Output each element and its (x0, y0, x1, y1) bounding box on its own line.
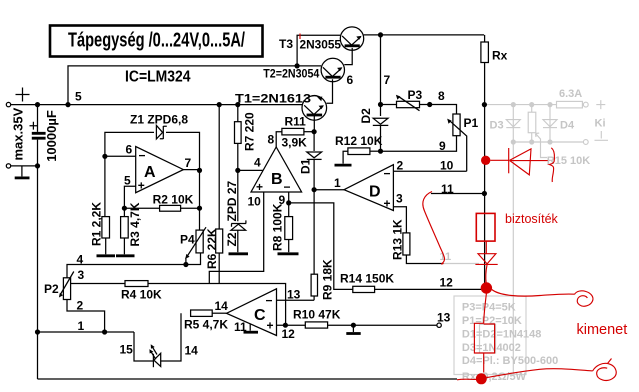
svg-text:R13 1K: R13 1K (390, 219, 404, 260)
svg-text:kimenet: kimenet (577, 322, 628, 338)
red wire to kimenet top loop (492, 290, 575, 297)
svg-text:13: 13 (287, 288, 301, 302)
resistor R11 3,9K (282, 128, 304, 135)
main supply bus 5 (38, 104, 303, 106)
resistor R3 4,7K (123, 208, 125, 216)
svg-text:+: + (384, 197, 391, 211)
svg-text:ZPD 27: ZPD 27 (225, 180, 239, 221)
resistor R13 1K (403, 233, 410, 255)
svg-text:11: 11 (441, 182, 454, 196)
svg-text:T2=2N3054: T2=2N3054 (263, 67, 319, 81)
zener Z1 ZPD6,8 feedback (105, 132, 200, 170)
svg-text:8: 8 (438, 89, 445, 103)
svg-text:15: 15 (120, 343, 134, 357)
red node dot on bottom rail (476, 373, 487, 384)
ghost node dots top (511, 102, 516, 107)
svg-text:R12 10K: R12 10K (335, 134, 383, 148)
svg-text:P3: P3 (408, 88, 423, 102)
ghost diode D4 (549, 105, 551, 142)
pin 7 output (183, 169, 199, 171)
wire 3 with R4 10K (71, 283, 125, 285)
svg-text:11: 11 (440, 251, 452, 263)
svg-text:D: D (369, 184, 381, 201)
svg-text:+: + (267, 319, 274, 333)
svg-text:Z1 ZPD6,8: Z1 ZPD6,8 (130, 113, 188, 127)
svg-text:1: 1 (78, 319, 85, 333)
wire 9 from D2 node to P1 bottom (381, 136, 457, 152)
svg-text:R8 100K: R8 100K (270, 203, 284, 251)
svg-text:D1: D1 (298, 158, 312, 174)
svg-text:max.35V: max.35V (11, 107, 26, 160)
svg-text:Ki: Ki (595, 118, 606, 130)
red curly bracket (549, 148, 554, 182)
svg-text:R10 47K: R10 47K (293, 308, 341, 322)
left rail down (37, 166, 39, 379)
node 7 rail (378, 32, 383, 37)
red output node dot (481, 156, 490, 165)
op-amp D (344, 165, 393, 211)
P2 bottom to wire 1 (67, 300, 105, 333)
resistor R9 18K (313, 190, 315, 275)
red wire bottom to kimenet lower loop (457, 369, 593, 380)
diode D2 (380, 105, 382, 117)
svg-text:R6 22K: R6 22K (205, 228, 219, 269)
svg-text:Rx: Rx (492, 49, 508, 63)
wire input to bus (11, 104, 38, 106)
red hand-drawn diode at output (490, 159, 509, 161)
resistor R14 150K (353, 286, 375, 292)
svg-text:P1: P1 (464, 116, 479, 130)
svg-text:6: 6 (126, 143, 133, 157)
pot P1 (430, 105, 457, 115)
red tick at T3 (299, 34, 301, 40)
svg-text:R4 10K: R4 10K (121, 288, 162, 302)
svg-text:Z2: Z2 (225, 232, 239, 246)
resistor R1 2,2K (104, 156, 106, 216)
ghost ground terminal label (595, 131, 609, 140)
ghost long vertical wire (512, 142, 514, 374)
svg-text:R1 2,2K: R1 2,2K (90, 202, 104, 246)
pin 1 wire (314, 189, 344, 191)
node (35, 102, 40, 107)
svg-text:12: 12 (440, 276, 454, 290)
red diode below fuse (485, 241, 487, 254)
svg-text:P3=P4=5K: P3=P4=5K (462, 302, 516, 314)
transistor T1 2N1613 (302, 96, 327, 121)
input terminal - (6, 164, 10, 168)
svg-text:biztosíték: biztosíték (505, 212, 559, 226)
terminal 13 (437, 323, 441, 327)
ghost plus terminal label (596, 100, 605, 109)
svg-text:6.3A: 6.3A (559, 88, 582, 100)
svg-text:5: 5 (124, 173, 131, 187)
ghost node dots bottom (511, 139, 516, 144)
svg-text:−: − (284, 180, 291, 194)
resistor R12 10K (348, 148, 370, 155)
pin 9 wire (288, 192, 290, 217)
red hand-drawn resistor box (474, 323, 494, 372)
input terminal + (6, 102, 10, 106)
ghost resistor Rx old position (480, 324, 496, 353)
svg-text:14: 14 (185, 344, 199, 358)
svg-text:11: 11 (234, 320, 247, 334)
svg-text:9: 9 (439, 139, 446, 153)
ghost box around parts list (454, 296, 526, 375)
LED (152, 354, 154, 367)
svg-text:D2: D2 (359, 108, 373, 124)
svg-text:5: 5 (75, 90, 82, 104)
svg-text:R5 4,7K: R5 4,7K (184, 318, 228, 332)
pin 8 wire to R11 (276, 132, 282, 147)
svg-text:−: − (384, 167, 391, 181)
zener Z2 ZPD 27 (231, 220, 246, 226)
resistor Rx (484, 35, 486, 42)
vertical wire pin7 node down to P4 (199, 170, 201, 230)
ghost pot R15 (531, 105, 533, 142)
pot P2 (63, 278, 70, 300)
wire 10 from P1 wiper to op-amp D (393, 170, 466, 172)
wire 11 to output rail (431, 193, 485, 195)
bottom rail (38, 378, 458, 380)
svg-text:C: C (254, 307, 266, 324)
ground at R10 (351, 323, 356, 328)
svg-text:3: 3 (78, 268, 85, 282)
pin 12 wire (277, 324, 306, 326)
svg-text:8: 8 (268, 133, 275, 147)
svg-text:2: 2 (397, 159, 404, 173)
svg-text:P2: P2 (44, 282, 59, 296)
svg-text:+: + (256, 180, 263, 194)
svg-text:1: 1 (334, 176, 341, 190)
svg-text:R7 220: R7 220 (243, 112, 257, 151)
red node dot at wire 12 (481, 282, 492, 293)
svg-text:12: 12 (282, 327, 296, 341)
svg-text:−: − (266, 294, 273, 308)
pin 4 supply wire into B (238, 169, 263, 171)
svg-text:A: A (144, 164, 156, 181)
svg-text:7: 7 (384, 73, 391, 87)
ghost bottom rectifier wire (513, 141, 583, 143)
LED branch (134, 313, 181, 361)
svg-text:+: + (138, 179, 145, 193)
svg-text:D3: D3 (490, 120, 504, 132)
red squiggle pin 11 to R13 (423, 192, 445, 265)
red wire down from node to hand resistor (484, 294, 487, 324)
svg-text:D4=Pl.: BY500-600: D4=Pl.: BY500-600 (462, 355, 558, 367)
transistor T2 2N3054 (321, 58, 344, 81)
svg-text:Tápegység /0...24V,0...5A/: Tápegység /0...24V,0...5A/ (68, 29, 245, 52)
red fuse box biztositek (476, 213, 495, 241)
op-amp A (136, 147, 184, 193)
resistor R2 10K (124, 207, 159, 209)
svg-text:3: 3 (396, 192, 403, 206)
upper wire to transistor bases (68, 66, 297, 105)
pin 6 wire (105, 155, 136, 157)
svg-text:D3=1N4002: D3=1N4002 (462, 342, 521, 354)
ghost terminal circles (583, 102, 588, 107)
svg-text:4: 4 (77, 253, 84, 267)
op-amp B (251, 147, 302, 192)
wire 1 (38, 331, 135, 333)
resistor R10 47K (305, 322, 327, 328)
svg-text:T3: T3 (279, 37, 293, 51)
wire 4 from P2 to P4 (67, 253, 201, 278)
svg-text:R9 18K: R9 18K (321, 259, 335, 300)
svg-text:4: 4 (254, 156, 261, 170)
svg-text:R11: R11 (285, 115, 307, 129)
pot P4 (196, 230, 203, 253)
svg-text:P1=P2=10K: P1=P2=10K (462, 315, 522, 327)
resistor R5 4,7K (191, 310, 213, 316)
pin 11 ground under C (249, 324, 251, 331)
pin 5 wire (124, 186, 135, 208)
pin 13 wire to R9 (277, 299, 315, 301)
capacitor 10000uF (37, 105, 39, 166)
svg-text:10000µF: 10000µF (44, 110, 59, 162)
svg-text:10: 10 (248, 195, 262, 209)
svg-text:2: 2 (77, 299, 84, 313)
svg-text:IC=LM324: IC=LM324 (125, 69, 191, 86)
output rail (484, 63, 486, 285)
svg-text:2N3055: 2N3055 (300, 38, 342, 52)
transistor T3 2N3055 (340, 27, 363, 50)
pin 10 wire jog (209, 192, 263, 284)
ghost top rectifier wire (484, 104, 583, 106)
svg-text:R2 10K: R2 10K (153, 193, 194, 207)
svg-text:R15 10K: R15 10K (547, 155, 590, 167)
ghost diode D3 (512, 105, 514, 142)
pot P3 (381, 104, 397, 106)
ground at input (21, 166, 23, 177)
svg-text:T1=2N1613: T1=2N1613 (235, 92, 311, 106)
svg-text:B: B (271, 171, 283, 188)
op-amp C (227, 289, 277, 336)
resistor R8 100K (285, 217, 293, 240)
svg-text:3,9K: 3,9K (282, 136, 308, 150)
svg-text:13: 13 (437, 311, 451, 325)
ghost fuse 6.3A (557, 101, 583, 108)
svg-text:6: 6 (347, 73, 354, 87)
svg-text:R14 150K: R14 150K (340, 272, 394, 286)
resistor R7 220 (237, 105, 239, 122)
title box (50, 26, 263, 57)
svg-text:7: 7 (185, 156, 192, 170)
ghost wire from R13 to output rail (444, 263, 480, 265)
svg-text:10: 10 (440, 159, 454, 173)
wire pin9 to R14 jog (289, 203, 353, 290)
diode D1 (313, 132, 315, 151)
resistor R6 22K from bus (218, 105, 220, 229)
svg-text:−: − (139, 149, 146, 163)
node (65, 102, 70, 107)
pin 3 wire to R13 (393, 207, 406, 233)
svg-text:14: 14 (215, 299, 229, 313)
svg-text:P4: P4 (180, 233, 195, 247)
svg-text:D4: D4 (560, 120, 575, 132)
